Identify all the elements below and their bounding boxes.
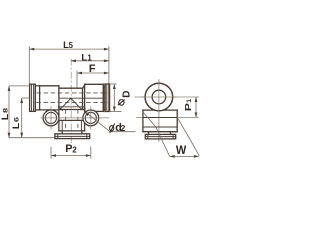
right collet: [103, 86, 105, 109]
svg-text:2: 2: [72, 145, 77, 154]
hex section: [85, 83, 104, 85]
ports horizontal centerline: [41, 117, 110, 119]
left release ring: [30, 84, 36, 111]
side inner circle: [152, 90, 166, 104]
side vertical centerline: [158, 79, 160, 142]
branch release flange: [55, 134, 90, 139]
branch vertical centerline: [70, 59, 72, 144]
dimension W diagonals: [143, 112, 170, 156]
side circle crosshair: [141, 96, 177, 98]
svg-text:8: 8: [3, 108, 10, 113]
svg-text:D: D: [121, 91, 132, 98]
svg-text:F: F: [89, 63, 96, 75]
leader phi d2: [85, 112, 136, 135]
left tube section: [40, 85, 59, 87]
branch neck: [61, 131, 63, 134]
branch bore hidden lines: [66, 110, 78, 131]
dimension P2: [51, 143, 91, 159]
side outer circle (tube port): [145, 83, 173, 111]
corner chamfer at block lower-left: [58, 106, 62, 110]
svg-text:W: W: [176, 143, 187, 157]
horizontal bore hidden lines: [37, 93, 109, 103]
dimension phi D: [110, 84, 133, 112]
branch stem: [58, 110, 60, 131]
right release ring: [105, 84, 110, 112]
svg-text:L: L: [11, 122, 21, 129]
side neck: [148, 132, 150, 135]
svg-text:P: P: [183, 103, 193, 112]
svg-text:L: L: [0, 113, 10, 120]
svg-text:1: 1: [87, 54, 92, 63]
center body block: [58, 86, 60, 110]
dimension L8: [0, 86, 55, 138]
svg-text:2: 2: [121, 123, 126, 133]
cone mark triangle: [60, 98, 82, 109]
svg-text:1: 1: [186, 99, 193, 103]
left port circle: [43, 110, 59, 126]
dimension F: [77, 63, 109, 88]
side body box: [143, 109, 177, 111]
dimension L5: [29, 39, 109, 84]
dimension L1: [71, 51, 109, 62]
dimension L6: [11, 98, 29, 138]
side horizontal centerline / P1 top extension: [134, 96, 199, 98]
right port circle: [83, 110, 99, 126]
dimension W: [170, 143, 199, 158]
side port axis line / P1 bottom extension: [136, 117, 199, 119]
svg-text:5: 5: [69, 41, 74, 50]
side release flange: [145, 134, 175, 139]
left collet: [35, 86, 39, 110]
dimension P1: [183, 97, 197, 118]
svg-text:6: 6: [14, 117, 21, 122]
